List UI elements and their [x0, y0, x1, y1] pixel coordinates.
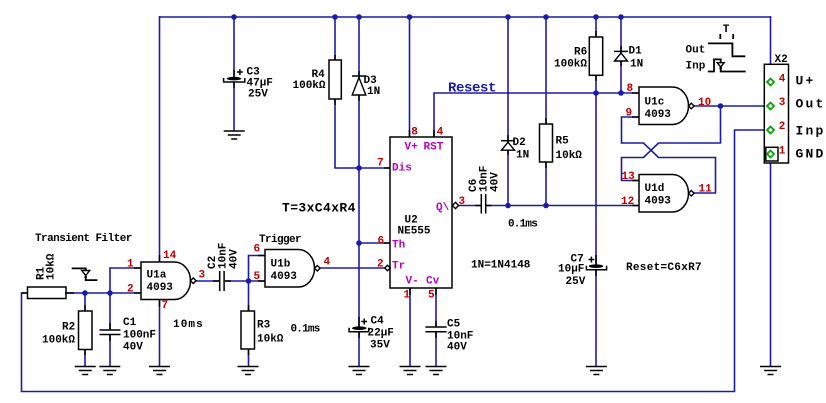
svg-text:Out: Out [796, 97, 826, 112]
wire U1b output to 555 Tr pin 2 [320, 267, 385, 269]
ground for C3 [224, 131, 245, 139]
svg-text:U1a: U1a [147, 270, 167, 282]
resistor R6 [554, 31, 603, 81]
svg-text:U+: U+ [796, 74, 816, 89]
op-amp U1a nand gate 4093 [127, 250, 206, 312]
op-amp U2 NE555 timer [377, 127, 466, 302]
T label above Out icon [723, 24, 730, 36]
svg-text:40V: 40V [490, 172, 502, 192]
wire R2 branch [84, 293, 86, 311]
svg-text:100kΩ: 100kΩ [42, 335, 75, 347]
node junction dot Th net [356, 240, 362, 246]
capacitor C6 [468, 166, 502, 214]
node junction dots input net [82, 290, 113, 296]
svg-text:4: 4 [324, 257, 331, 269]
node junction dot Dis net [356, 165, 362, 171]
svg-text:25V: 25V [566, 276, 586, 288]
node junction dot Out net [718, 103, 724, 109]
label Inp for icon [686, 61, 706, 73]
svg-text:10kΩ: 10kΩ [46, 253, 58, 280]
wire R5 branch from rail [545, 16, 547, 124]
svg-text:C4: C4 [371, 316, 385, 328]
svg-text:3: 3 [779, 97, 786, 109]
svg-text:12: 12 [621, 196, 634, 208]
svg-text:Inp: Inp [686, 61, 706, 73]
capacitor C4 [349, 316, 394, 352]
wire R6 to Reset net [595, 76, 597, 94]
resistor R2 [42, 305, 92, 355]
wire D2 to Q net [507, 150, 509, 206]
capacitor C1 [100, 317, 157, 354]
svg-text:U1d: U1d [645, 183, 665, 195]
svg-text:10kΩ: 10kΩ [556, 150, 583, 162]
svg-text:8: 8 [411, 127, 418, 139]
svg-text:Out: Out [686, 45, 706, 57]
label 1N=1N4148 [471, 260, 531, 272]
svg-text:U1c: U1c [645, 97, 665, 109]
wire U1c output to X2 Out [694, 105, 767, 107]
svg-text:V+: V+ [405, 142, 419, 154]
svg-text:4093: 4093 [645, 109, 672, 121]
svg-text:5: 5 [254, 271, 261, 283]
svg-text:C5: C5 [447, 319, 461, 331]
svg-text:40V: 40V [447, 342, 467, 354]
svg-text:4093: 4093 [645, 196, 672, 208]
capacitor C2 [207, 243, 241, 291]
svg-text:Tr: Tr [392, 261, 405, 273]
svg-text:6: 6 [378, 236, 385, 248]
svg-text:D2: D2 [513, 137, 526, 149]
svg-text:4: 4 [437, 127, 444, 139]
svg-text:35V: 35V [370, 340, 390, 352]
node junction dot trigger net [246, 278, 252, 284]
diode D3 [352, 71, 380, 101]
wire D3 branch from rail [358, 16, 360, 75]
svg-text:8: 8 [627, 83, 634, 95]
svg-text:T: T [723, 24, 730, 36]
svg-text:1N: 1N [516, 150, 529, 162]
svg-text:R5: R5 [556, 136, 570, 148]
wire 555 Q output to C6 [459, 205, 481, 207]
wire top supply rail [160, 16, 771, 18]
wire C7 branch from Reset net [595, 93, 597, 265]
svg-text:10: 10 [698, 97, 711, 109]
svg-text:R2: R2 [62, 322, 75, 334]
svg-text:Inp: Inp [796, 124, 826, 139]
svg-text:10kΩ: 10kΩ [257, 334, 284, 346]
wire 555 Th pin 6 lead [359, 242, 390, 244]
wire C3 branch from rail [233, 16, 235, 77]
wire left rail drop to U1a pin 14 [159, 16, 161, 262]
wire D3 / Th / C4 vertical [358, 95, 360, 327]
wire C4 to ground [358, 332, 360, 367]
wire C3 to ground [233, 82, 235, 131]
svg-text:R3: R3 [257, 320, 271, 332]
label Transient Filter [35, 233, 132, 245]
svg-text:7: 7 [377, 158, 384, 170]
wire U1b pin 6 branch to R3 [249, 256, 266, 312]
wire black pin stubs U1a [134, 255, 160, 307]
ground for C7 [586, 367, 607, 375]
net label Resest [448, 81, 496, 97]
op-amp U1b nand gate 4093 [254, 244, 331, 288]
ground for X2 GND [760, 367, 781, 375]
wire black pin stubs U1d [632, 181, 639, 206]
svg-text:Resest: Resest [448, 81, 496, 97]
wire Reset net: 555 pin 4 to U1c pin 8 [434, 93, 639, 137]
wire U1d pin 13 via crossover from U1c output [622, 106, 721, 181]
svg-text:0.1ms: 0.1ms [291, 324, 320, 336]
resistor R4 [293, 55, 342, 105]
ground for R2 [75, 367, 96, 375]
svg-text:1N: 1N [367, 86, 380, 98]
svg-text:9: 9 [626, 108, 633, 120]
resistor R5 [540, 118, 583, 168]
wire R6 branch from rail [595, 16, 597, 37]
svg-text:40V: 40V [123, 342, 143, 354]
svg-text:Transient Filter: Transient Filter [35, 233, 132, 245]
wire black pin stubs U2 555 [384, 130, 436, 295]
diode D2 [501, 135, 529, 162]
op-amp U1d nand gate 4093 [621, 171, 712, 212]
op-amp U1c nand gate 4093 [626, 83, 712, 125]
svg-text:D1: D1 [629, 46, 643, 58]
wire C1 branch [109, 293, 111, 330]
svg-text:Th: Th [392, 240, 405, 252]
svg-text:0.1ms: 0.1ms [508, 219, 537, 231]
ground for C5 [426, 367, 447, 375]
svg-text:2: 2 [779, 121, 786, 133]
label 0.1ms near C6 [508, 219, 537, 231]
wire junction to U1a pin 1 [110, 268, 141, 294]
svg-text:22µF: 22µF [368, 328, 394, 340]
wire R2 to ground [84, 350, 86, 367]
wire U1c pin 9 via crossover from U1d output [622, 117, 716, 193]
svg-text:100kΩ: 100kΩ [293, 80, 326, 92]
wire C1 to ground [109, 335, 111, 367]
connector X2 [764, 54, 825, 163]
svg-text:V-: V- [406, 276, 419, 288]
svg-text:5: 5 [428, 290, 435, 302]
svg-text:14: 14 [163, 250, 177, 262]
svg-text:2: 2 [377, 259, 384, 271]
wire 555 pin 1 to ground [409, 288, 411, 367]
wire black pin stubs U1c [632, 93, 639, 117]
ground for C1 [99, 367, 120, 375]
svg-text:7: 7 [162, 300, 169, 312]
svg-text:Dis: Dis [392, 163, 412, 175]
svg-text:3: 3 [459, 196, 466, 208]
wire C2 to U1b pin 5 [225, 280, 265, 282]
svg-text:RST: RST [424, 142, 444, 154]
svg-text:40V: 40V [229, 249, 241, 269]
svg-text:Cv: Cv [426, 276, 440, 288]
svg-text:C1: C1 [123, 317, 137, 329]
svg-text:11: 11 [699, 184, 713, 196]
label 0.1ms near R3 [291, 324, 320, 336]
wire R3 to ground [248, 349, 250, 367]
capacitor C7 [558, 254, 607, 289]
wire U1a output to C2 [196, 280, 219, 282]
svg-text:Reset=C6xR7: Reset=C6xR7 [626, 262, 702, 274]
wire D1 to Reset net [620, 61, 622, 93]
svg-text:NE555: NE555 [398, 226, 431, 238]
svg-text:U1b: U1b [271, 259, 291, 271]
svg-text:Q\: Q\ [436, 202, 450, 214]
capacitor C3 [224, 67, 273, 101]
svg-text:100kΩ: 100kΩ [554, 59, 587, 71]
wire R5 to Q net [545, 162, 547, 206]
svg-text:1N=1N4148: 1N=1N4148 [471, 260, 531, 272]
svg-text:R6: R6 [574, 47, 587, 59]
node junction dots top rail [231, 14, 624, 20]
svg-text:1: 1 [779, 146, 786, 158]
label T=3xC4xR4 [282, 201, 356, 216]
svg-text:1N: 1N [630, 59, 643, 71]
wire C5 to ground [435, 332, 437, 367]
svg-text:4: 4 [779, 74, 786, 86]
ground for C4 [349, 367, 370, 375]
svg-text:T=3xC4xR4: T=3xC4xR4 [282, 201, 356, 216]
svg-text:100nF: 100nF [123, 330, 156, 342]
label Trigger [259, 234, 301, 246]
capacitor C5 [425, 319, 473, 354]
wire C6 to U1d pin 12 [487, 205, 640, 207]
wire 555 pin 8 from rail [409, 16, 411, 137]
Out waveform icon [708, 34, 745, 56]
wire bottom return: X2 Inp to R1 left [22, 130, 767, 392]
wire R4 branch from rail [334, 16, 336, 60]
svg-text:1: 1 [404, 290, 411, 302]
label 10ms [173, 319, 204, 331]
svg-text:Trigger: Trigger [259, 234, 301, 246]
wire D1 branch from rail [620, 16, 622, 51]
svg-text:3: 3 [199, 270, 206, 282]
resistor R3 [241, 305, 284, 355]
svg-text:25V: 25V [248, 89, 268, 101]
wire right rail drop to X2 pin 4 [770, 16, 772, 79]
svg-text:2: 2 [127, 284, 134, 296]
wire 555 pin 5 to C5 [435, 288, 437, 327]
svg-text:10µF: 10µF [558, 264, 584, 276]
svg-text:1: 1 [127, 259, 134, 271]
wire U1a pin 7 to ground [159, 300, 161, 367]
ground for U1a pin 7 [149, 367, 170, 375]
ground for R3 [238, 367, 259, 375]
input falling-edge icon at transient filter [72, 268, 98, 280]
resistor R1 [22, 253, 75, 298]
node junction dots Q net [505, 203, 549, 209]
ground for 555 pin 1 [400, 367, 421, 375]
svg-text:X2: X2 [775, 54, 788, 66]
svg-text:GND: GND [796, 147, 826, 162]
wire X2 GND to ground [770, 163, 772, 367]
Inp pulse icon with falling-edge arrow [708, 59, 746, 71]
wire D2 branch from rail [507, 16, 509, 140]
label Reset=C6xR7 [626, 262, 702, 274]
svg-text:4093: 4093 [147, 282, 174, 294]
wire C7 to ground [595, 270, 597, 367]
wire black pin stubs U1b [258, 256, 265, 282]
svg-text:10ms: 10ms [173, 319, 204, 331]
diode D1 [614, 46, 643, 71]
label Out for icon [686, 45, 706, 57]
wire R1 right to U1a pin 2 [65, 292, 141, 294]
svg-text:13: 13 [622, 171, 636, 183]
svg-text:4093: 4093 [271, 271, 298, 283]
node junction dots Reset net [593, 90, 624, 96]
wire R4 bottom to 555 Dis pin 7 [335, 99, 390, 168]
